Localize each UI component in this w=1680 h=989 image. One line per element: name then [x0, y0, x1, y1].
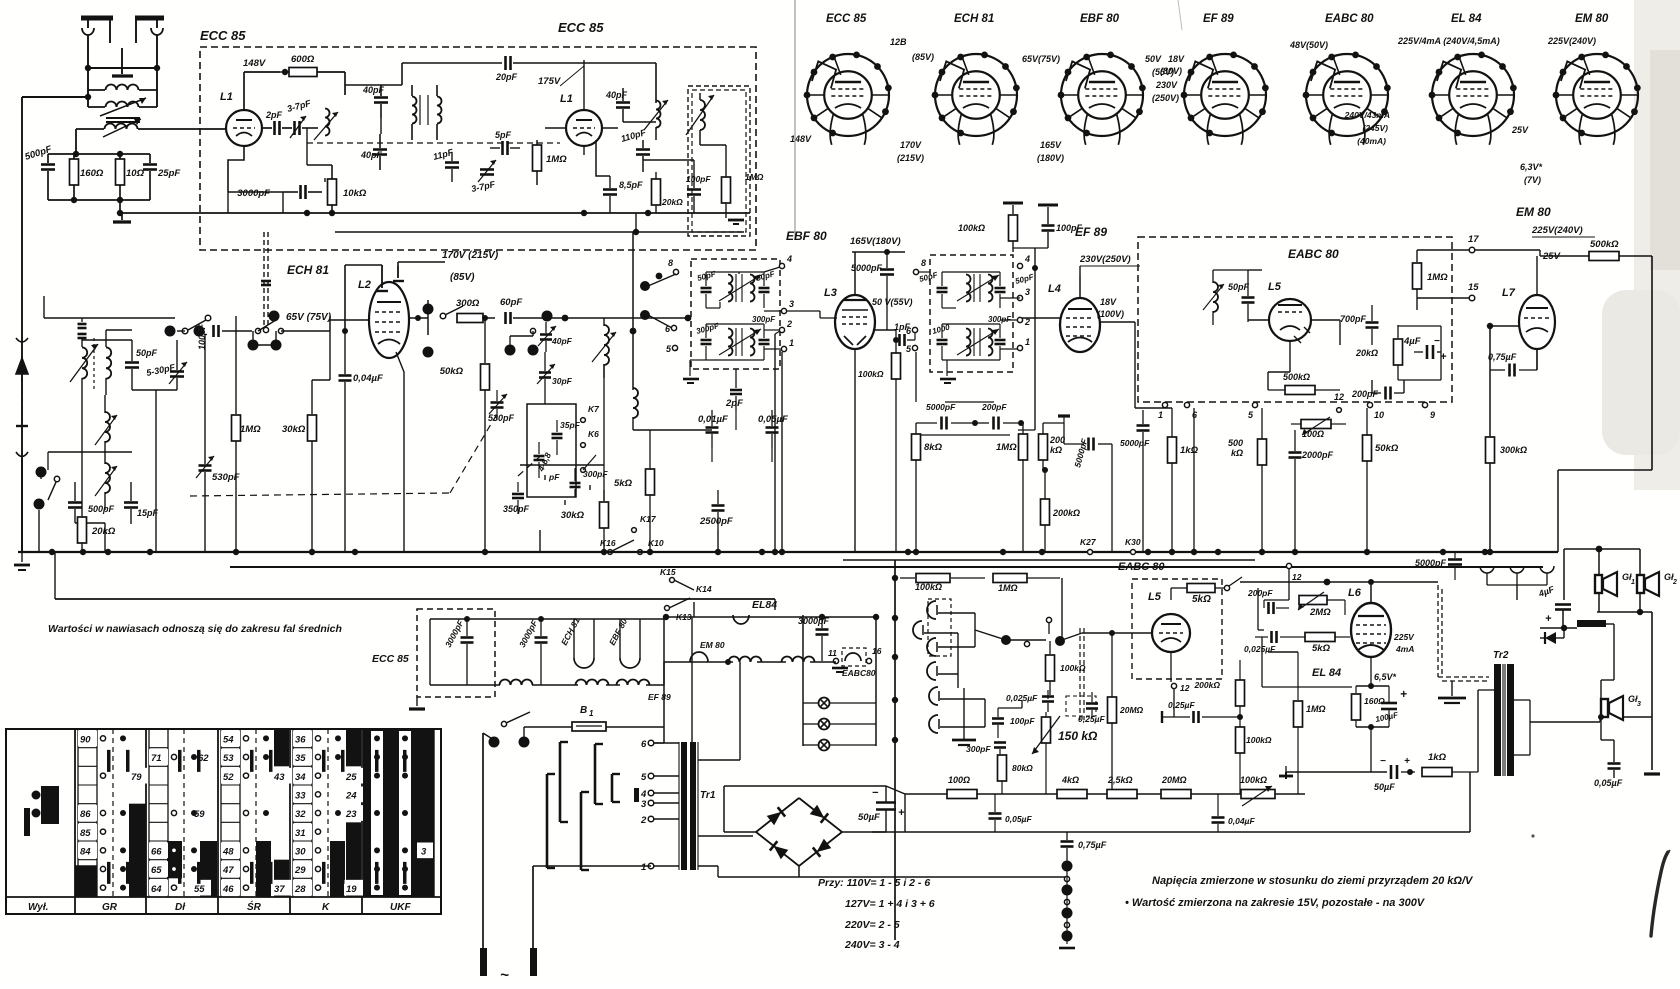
wire S1	[39, 452, 132, 552]
label 175V	[538, 66, 584, 87]
svg-text:ECC 85: ECC 85	[372, 653, 409, 665]
capacitor 5000pF g	[851, 252, 894, 330]
svg-text:4: 4	[1024, 254, 1030, 264]
IF1 coil A	[719, 274, 761, 302]
capacitor 15pF	[124, 452, 159, 524]
svg-text:47: 47	[222, 865, 234, 876]
wire L5 grid	[1062, 633, 1152, 640]
band switch S1	[34, 467, 60, 510]
svg-text:225V(240V): 225V(240V)	[1531, 225, 1583, 236]
svg-text:225V: 225V	[1393, 632, 1415, 642]
main grid line	[236, 330, 252, 332]
svg-text:ŚR: ŚR	[247, 900, 262, 913]
wire speaker bottom	[1597, 593, 1652, 615]
label 50V	[872, 297, 913, 307]
IF2 coil A	[957, 274, 999, 302]
tube L4	[1048, 283, 1100, 352]
svg-text:36: 36	[295, 735, 306, 746]
svg-text:100kΩ: 100kΩ	[1060, 663, 1086, 673]
svg-text:5000pF: 5000pF	[851, 263, 883, 273]
svg-text:225V/4mA (240V/4,5mA): 225V/4mA (240V/4,5mA)	[1397, 36, 1500, 46]
label 65V	[286, 312, 332, 323]
svg-text:170V: 170V	[900, 140, 922, 150]
tube L1b	[560, 93, 602, 146]
capacitor 20pF	[402, 56, 656, 82]
wire bus right mid	[843, 559, 1255, 561]
capacitor 0.01uF	[698, 410, 728, 448]
dipole centre stub	[112, 48, 133, 76]
IF1 pin wires	[648, 267, 782, 350]
svg-text:12: 12	[1292, 572, 1302, 582]
electrolytic 4uF	[1403, 336, 1447, 363]
resistor 5kΩ o	[1292, 633, 1350, 655]
svg-text:K6: K6	[588, 429, 599, 439]
switch K4	[510, 328, 536, 350]
svg-text:200pF: 200pF	[1247, 588, 1273, 598]
svg-text:EM 80: EM 80	[1516, 205, 1551, 219]
svg-text:5pF: 5pF	[495, 130, 512, 140]
rail left af	[892, 560, 898, 940]
svg-text:2,5kΩ: 2,5kΩ	[1107, 775, 1133, 785]
tr1 pin 1	[641, 862, 679, 873]
svg-text:5000pF: 5000pF	[926, 402, 956, 412]
tr1 pin 6	[641, 739, 679, 750]
antenna dipole bar right	[135, 16, 164, 21]
capacitor 0.025uF v	[1006, 693, 1054, 712]
svg-text:0,05µF: 0,05µF	[1594, 778, 1623, 788]
svg-text:30kΩ: 30kΩ	[282, 424, 306, 435]
potentiometer 150kΩ	[1032, 712, 1098, 794]
svg-text:3: 3	[789, 299, 794, 309]
capacitor 40pF b	[605, 88, 630, 122]
resistor 1MΩ row	[996, 423, 1028, 552]
svg-text:150 kΩ: 150 kΩ	[1058, 729, 1098, 743]
svg-text:31: 31	[295, 828, 306, 839]
wire heater mid rail	[664, 659, 836, 665]
svg-text:kΩ: kΩ	[1050, 445, 1062, 455]
IF2 wires A	[942, 272, 1000, 308]
svg-text:700pF: 700pF	[1340, 314, 1367, 324]
tube L5	[1268, 281, 1311, 343]
wire	[228, 192, 283, 213]
wire	[312, 331, 330, 380]
svg-text:230V: 230V	[1155, 80, 1178, 90]
svg-text:530pF: 530pF	[488, 413, 515, 423]
svg-text:50µF: 50µF	[858, 812, 880, 823]
ground small	[1058, 416, 1070, 423]
capacitor 0.25uF afb	[1078, 692, 1105, 724]
dashed box 0.04	[1066, 696, 1096, 716]
wire rc top rail	[48, 151, 150, 157]
capacitor 50pF det	[1228, 270, 1255, 322]
svg-text:50kΩ: 50kΩ	[1375, 443, 1399, 454]
svg-text:Napięcia zmierzone w stosunku: Napięcia zmierzone w stosunku do ziemi p…	[1152, 875, 1474, 887]
svg-text:0,75µF: 0,75µF	[1078, 840, 1107, 850]
capacitor 530pF trim	[196, 334, 240, 552]
svg-text:EBF 80: EBF 80	[786, 229, 827, 243]
wire af mid	[1258, 588, 1264, 630]
svg-text:1: 1	[589, 709, 594, 718]
capacitor 5000pF c	[1120, 410, 1150, 552]
wire	[253, 344, 276, 346]
resistor 600Ω	[280, 54, 345, 77]
speaker Gl1	[1595, 572, 1635, 596]
wire 165V rail	[852, 249, 905, 255]
wire coil down	[75, 129, 77, 154]
switch K7	[581, 404, 601, 422]
dashed drop from FM box	[253, 232, 276, 345]
IF2 capacitor 1000pF	[931, 322, 951, 360]
tube L2	[330, 279, 409, 552]
wire L3 cathode	[854, 349, 856, 552]
svg-text:(7V): (7V)	[1524, 175, 1541, 185]
trimmer 40pF osc	[538, 322, 573, 352]
wire el84 anode	[1454, 561, 1456, 582]
wire jacks	[924, 613, 985, 727]
svg-text:300pF: 300pF	[583, 469, 608, 479]
svg-text:EBF 80: EBF 80	[1080, 13, 1120, 25]
wire bottom bus	[905, 793, 1305, 795]
wire to fuse	[524, 727, 572, 742]
svg-text:1MΩ: 1MΩ	[998, 583, 1018, 593]
coil pair fm	[412, 85, 442, 140]
svg-text:65V (75V): 65V (75V)	[286, 312, 332, 323]
lamp 1	[803, 698, 876, 709]
resistor 160Ω	[70, 154, 104, 200]
svg-text:20MΩ: 20MΩ	[1119, 705, 1144, 715]
tube L3	[824, 287, 875, 349]
jack ground	[952, 688, 976, 745]
label 165V	[850, 236, 901, 247]
svg-text:Wartości w nawiasach odnoszą s: Wartości w nawiasach odnoszą się do zakr…	[48, 623, 342, 635]
svg-text:K16: K16	[600, 538, 616, 548]
IF1 pins	[665, 254, 794, 354]
speaker ground mid	[1438, 681, 1466, 703]
wire	[1540, 624, 1614, 658]
svg-text:1MΩ: 1MΩ	[1306, 704, 1326, 714]
heater gnd	[409, 697, 425, 709]
svg-text:15pF: 15pF	[137, 508, 159, 518]
matrix section Dł	[149, 729, 217, 897]
svg-text:48V(50V): 48V(50V)	[1289, 40, 1328, 50]
capacitor 50pF am	[125, 340, 158, 390]
cathode loop	[1356, 683, 1389, 730]
svg-text:25pF: 25pF	[157, 168, 180, 179]
svg-text:1kΩ: 1kΩ	[1180, 445, 1199, 456]
svg-text:165V(180V): 165V(180V)	[850, 236, 901, 247]
pin 12 af2	[1264, 563, 1302, 600]
svg-text:170V (215V): 170V (215V)	[442, 250, 499, 261]
svg-text:1: 1	[1025, 337, 1030, 347]
svg-text:kΩ: kΩ	[1231, 448, 1243, 458]
transformer Tr1 core	[679, 742, 716, 870]
svg-text:500kΩ: 500kΩ	[1283, 372, 1310, 382]
svg-text:28: 28	[294, 884, 306, 895]
svg-text:500pF: 500pF	[88, 504, 115, 514]
svg-text:L1: L1	[560, 93, 573, 105]
mains switch	[483, 712, 530, 748]
svg-text:0,01µF: 0,01µF	[698, 414, 728, 425]
socket labels ECC85	[790, 37, 907, 144]
svg-text:2500pF: 2500pF	[699, 516, 733, 527]
switch K5	[581, 455, 596, 472]
label 148V	[243, 58, 266, 69]
svg-text:−: −	[1434, 336, 1440, 347]
tr1 secondary	[698, 760, 753, 877]
jack dashed box	[928, 599, 951, 656]
node	[423, 304, 434, 358]
svg-text:5kΩ: 5kΩ	[614, 478, 633, 489]
left rail antenna symbols	[16, 338, 28, 552]
heater coil d	[729, 657, 762, 663]
capacitor 0.05uF b	[989, 794, 1033, 832]
svg-text:200pF: 200pF	[981, 402, 1007, 412]
capacitor 0.75uF b	[1061, 832, 1107, 860]
IF2 ground	[940, 360, 956, 383]
trimmer 3-7pF b	[470, 160, 496, 194]
bridge leads	[718, 786, 886, 877]
svg-text:(180V): (180V)	[1037, 153, 1064, 163]
svg-text:200kΩ: 200kΩ	[1193, 680, 1220, 690]
svg-text:0,05µF: 0,05µF	[758, 414, 788, 425]
wire	[1290, 320, 1340, 372]
svg-text:240V= 3 - 4: 240V= 3 - 4	[844, 939, 900, 951]
svg-text:300kΩ: 300kΩ	[1500, 445, 1527, 455]
speaker Gl2	[1637, 572, 1677, 596]
wire em	[1540, 250, 1652, 470]
svg-text:12B: 12B	[890, 37, 907, 47]
node	[505, 311, 553, 356]
svg-text:ECH 81: ECH 81	[287, 263, 329, 277]
svg-text:L2: L2	[358, 279, 371, 291]
heater coil b	[576, 680, 609, 686]
svg-text:500kΩ: 500kΩ	[1590, 239, 1619, 250]
matrix label band line	[6, 896, 441, 898]
capacitor 0.25uF af	[1162, 700, 1240, 723]
resistor 4kΩ	[1057, 775, 1087, 799]
capacitor 5pF	[490, 130, 520, 155]
svg-text:200kΩ: 200kΩ	[1052, 508, 1080, 518]
wire gnd stem	[121, 213, 123, 220]
svg-text:3: 3	[1637, 701, 1641, 708]
svg-text:50 V(55V): 50 V(55V)	[872, 297, 913, 307]
svg-text:pF: pF	[548, 472, 560, 482]
wire heater bottom rail	[430, 662, 664, 685]
ground bar top2	[1038, 204, 1058, 207]
resistor 80kΩ	[998, 755, 1034, 794]
pin 15	[1468, 282, 1479, 301]
svg-text:2000pF: 2000pF	[1301, 450, 1334, 460]
capacitor 60pF	[500, 297, 530, 324]
IF1 ground	[683, 360, 706, 383]
svg-text:(40mA): (40mA)	[1357, 136, 1386, 146]
svg-text:0,25µF: 0,25µF	[1168, 700, 1195, 710]
svg-text:11: 11	[828, 648, 837, 658]
bus dots	[49, 549, 1493, 555]
wire drop	[774, 599, 776, 610]
svg-text:10kΩ: 10kΩ	[343, 188, 367, 199]
wire dipole cross	[85, 65, 160, 71]
ground sp	[1644, 772, 1660, 775]
wire	[244, 69, 288, 75]
IF1 wires B	[706, 324, 764, 360]
stop bar	[1161, 711, 1163, 723]
heater dashed box	[417, 609, 495, 697]
resistor 500kΩ det	[1268, 372, 1340, 395]
svg-text:EL 84: EL 84	[1451, 13, 1482, 25]
svg-text:600Ω: 600Ω	[291, 54, 315, 65]
wire anode	[243, 72, 245, 110]
capacitor 100pF sw	[197, 323, 236, 350]
svg-text:(215V): (215V)	[897, 153, 924, 163]
switch K16 K10	[600, 538, 664, 554]
resistor 100Ω b	[947, 775, 977, 799]
svg-text:300pF: 300pF	[752, 315, 776, 324]
svg-text:54: 54	[223, 735, 234, 746]
tube socket EBF 80	[1058, 13, 1146, 145]
wire L3	[835, 252, 896, 330]
IF1 capacitor 50pF R	[755, 269, 776, 308]
resistor 8kΩ	[912, 423, 943, 552]
electrolytic 50uF o	[1286, 756, 1415, 792]
wire af	[975, 578, 1062, 640]
svg-text:40pF: 40pF	[605, 90, 628, 100]
svg-text:Przy: 110V= 1 - 5 i 2 - 6: Przy: 110V= 1 - 5 i 2 - 6	[818, 877, 930, 889]
svg-text:(250V): (250V)	[1152, 93, 1179, 103]
dashed link	[307, 142, 560, 144]
svg-text:50kΩ: 50kΩ	[440, 366, 464, 377]
capacitor 100pF fm	[686, 174, 711, 213]
socket labels EABC80	[1289, 40, 1328, 50]
gang dashed pair	[1080, 628, 1084, 720]
tr1 pin 2	[640, 815, 679, 826]
speaker plugs	[1480, 566, 1554, 585]
pin 11	[828, 648, 839, 664]
label EF 89	[1075, 225, 1107, 239]
wire y213	[120, 212, 220, 214]
tube socket EM 80	[1553, 13, 1641, 145]
svg-text:29: 29	[294, 865, 306, 876]
svg-text:8,5pF: 8,5pF	[619, 180, 643, 190]
svg-text:2: 2	[786, 319, 792, 329]
tube socket EABC 80	[1303, 13, 1391, 145]
IF2 coil B	[957, 328, 999, 356]
coil ant 3	[95, 455, 117, 510]
svg-text:2pF: 2pF	[265, 110, 283, 120]
svg-text:48: 48	[222, 847, 234, 858]
coil det	[1203, 270, 1224, 325]
trimmer 3-7pF	[286, 98, 312, 138]
wire prong R to pin1	[533, 865, 651, 867]
svg-text:−: −	[1380, 756, 1386, 767]
resistor 20kΩ fm	[652, 172, 684, 213]
wire cathode	[228, 146, 244, 192]
resistor 1MΩ o	[1268, 652, 1326, 794]
coil balun 1	[88, 85, 157, 91]
pins K7x	[1080, 537, 1141, 555]
wire o	[1240, 579, 1438, 603]
svg-text:K15: K15	[660, 567, 676, 577]
svg-text:10Ω: 10Ω	[126, 168, 145, 179]
svg-text:52: 52	[223, 772, 234, 783]
resistor 1MΩ inner	[722, 145, 764, 218]
wire box bottom2	[335, 229, 744, 235]
note line 1	[1152, 875, 1474, 887]
wire 50uF	[872, 786, 1067, 877]
switch Wył contact bar	[24, 808, 30, 836]
wire	[344, 72, 346, 95]
tube socket ECC 85	[804, 13, 892, 145]
resistor 10kΩ	[325, 165, 367, 213]
IF1 capacitor 300pF L	[695, 321, 721, 360]
label EM 80	[1516, 205, 1551, 219]
svg-text:0,05µF: 0,05µF	[1005, 814, 1032, 824]
svg-text:L5: L5	[1148, 591, 1162, 603]
switch K6	[581, 429, 600, 447]
EABC pins	[1158, 392, 1435, 420]
tr2 windings	[1478, 690, 1530, 772]
magnet bar	[1561, 620, 1614, 631]
svg-text:160Ω: 160Ω	[1364, 696, 1385, 706]
capacitor 3000pF el	[798, 615, 830, 661]
capacitor 100pF top	[1042, 207, 1083, 248]
switch K13	[665, 598, 692, 622]
wire set1	[82, 330, 177, 552]
tube L1a	[220, 91, 262, 146]
svg-text:20kΩ: 20kΩ	[1355, 348, 1378, 358]
resistor 10Ω	[116, 154, 145, 200]
speaker loom dashed	[1438, 585, 1489, 681]
svg-text:100kΩ: 100kΩ	[858, 369, 884, 379]
wire	[904, 794, 906, 832]
svg-text:30pF: 30pF	[552, 376, 573, 386]
svg-text:L6: L6	[1348, 587, 1362, 599]
svg-text:L7: L7	[1502, 287, 1516, 299]
fuse B1	[572, 705, 606, 731]
coil osc a	[302, 109, 338, 141]
svg-text:4µF: 4µF	[1403, 336, 1421, 347]
wire pin6 drop	[1191, 408, 1197, 555]
heater loop ECH81	[559, 616, 594, 668]
svg-text:17: 17	[1468, 234, 1479, 245]
svg-text:85: 85	[80, 828, 91, 839]
label ECC 85 heater	[372, 653, 409, 665]
wire det top	[1213, 269, 1262, 271]
svg-text:160Ω: 160Ω	[80, 168, 104, 179]
wire	[633, 410, 772, 462]
wire speaker top	[1564, 546, 1640, 600]
capacitor 0.75uF em	[1488, 326, 1537, 552]
svg-text:ECC 85: ECC 85	[826, 13, 867, 25]
svg-text:−: −	[872, 787, 879, 799]
lamp 2	[803, 719, 876, 730]
switch K3	[440, 306, 463, 319]
resistor 30kΩ am	[282, 380, 317, 552]
capacitor 0.025uF o	[1244, 631, 1352, 687]
svg-text:2pF: 2pF	[725, 398, 743, 409]
switch K15 K14	[660, 567, 712, 594]
svg-text:40pF: 40pF	[551, 336, 573, 346]
IF2 capacitor 50pF R	[995, 272, 1036, 308]
svg-text:5000pF: 5000pF	[1120, 438, 1150, 448]
label 18V	[1097, 297, 1124, 319]
label 170V	[442, 250, 499, 283]
svg-text:24: 24	[345, 791, 357, 802]
IF2 pins	[906, 254, 1030, 354]
resistor 1MΩ em	[1413, 250, 1449, 310]
socket labels EBF80	[1037, 54, 1174, 163]
antenna terminal fork right	[151, 18, 163, 68]
